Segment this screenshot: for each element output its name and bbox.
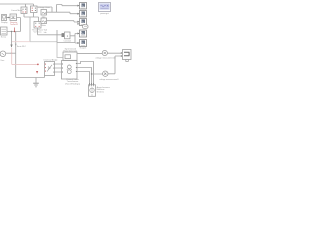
svg-text:Pulse Generator: Pulse Generator [63,50,77,53]
wire phase A transformer to motor [77,62,94,85]
wire E1 input [57,43,63,58]
svg-text:Serie RLC: Serie RLC [17,46,27,48]
wire feed scope2 [37,7,77,14]
svg-text:(Two Windings): (Two Windings) [65,83,80,85]
wire phase C transformer to motor [77,72,90,85]
svg-text:Ts=5e-05: Ts=5e-05 [10,24,18,26]
three-phase transformer [62,61,78,80]
block D2 constant 1 [64,32,72,43]
pulse generator box E1 [63,52,77,60]
measurement circle E2 [102,50,107,55]
wire to node x57 [30,41,57,43]
block VM1 (current measurement) [21,7,27,14]
wire pink phase [12,48,38,64]
machine block M1 [123,50,132,62]
block A (display) [2,15,7,21]
wire source bus [6,52,16,54]
series RLC branch arrows [10,45,12,48]
svg-text:Constant: Constant [64,40,72,43]
wire VM1/VM2 to CM3 [24,13,39,22]
scope 2 [77,11,86,18]
wire top bus [0,4,34,7]
wire CM3 down to bus [38,28,76,43]
svg-text:Scope1: Scope1 [80,48,88,50]
svg-text:Iab: Iab [44,32,47,34]
powergui block [99,3,111,12]
svg-text:Curent Meas: Curent Meas [11,9,22,12]
gain block D1 [62,33,64,36]
block CM3 (three-phase measurement) [34,22,41,29]
scope 5 [77,40,86,47]
block C2 [41,18,47,24]
wire pink upper [12,41,30,43]
wire feed scope3 [47,21,78,22]
red stub [14,28,16,32]
scope 4 [77,30,86,37]
svg-text:SI Units: SI Units [97,90,104,93]
wire tap to voltage measurement [92,73,116,75]
wire bottom return [16,76,45,83]
ground [33,83,39,87]
node red [37,64,39,66]
block VM2 (voltage measurement) [31,6,38,13]
wire S1 output [7,32,21,78]
wires bridge to transformer [55,64,62,72]
svg-text:Sursa: Sursa [1,37,7,39]
wire B to source line [17,18,21,32]
motor block [89,83,96,96]
wire A to B [7,17,9,19]
svg-text:Display: Display [1,22,8,24]
voltage measurement circle [103,71,108,76]
svg-text:voltage measurement1: voltage measurement1 [99,78,118,81]
wire feed scope1 [47,5,78,13]
block C1 [41,10,47,16]
AC source Uan [0,51,6,57]
wire phase B transformer to motor [77,68,92,85]
svg-text:Uan: Uan [1,60,5,62]
red arrow [36,71,38,74]
wire D2 out [70,34,77,44]
svg-text:Universal Bridge: Universal Bridge [44,59,58,62]
wire bus drop at x30 [29,17,31,42]
scope 1 [77,3,86,10]
block tag (rounded) [83,25,89,29]
svg-text:voltage measurement2: voltage measurement2 [95,56,116,59]
wire E1 to E2 to machine [77,53,121,74]
block B (converter) [10,14,17,21]
svg-text:powergui: powergui [100,12,109,15]
scope 3 [77,19,86,26]
svg-text:Vabc: Vabc [41,25,46,27]
universal bridge [45,62,55,76]
block S1 (source subsystem) [1,27,8,35]
